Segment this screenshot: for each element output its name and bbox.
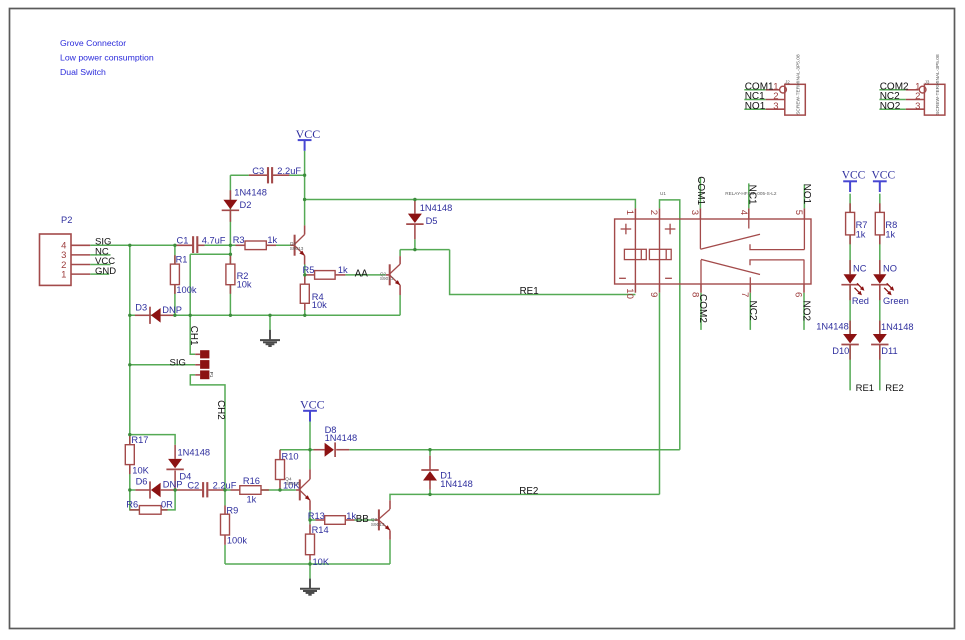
svg-text:Red: Red — [852, 296, 869, 306]
wire Q2 collector up — [399, 250, 401, 257]
P2 pin numbers — [61, 241, 66, 281]
junction at 304.8,315.3 — [303, 314, 306, 317]
diode D2 — [222, 200, 239, 211]
J3 pin3 lead — [906, 108, 925, 110]
svg-text:NC2: NC2 — [747, 301, 758, 321]
diode D3 — [150, 307, 161, 324]
svg-text:R16: R16 — [243, 476, 260, 486]
junction at 270.0,315.3 — [268, 314, 271, 317]
Q1 base lead — [290, 244, 294, 246]
Q1 collector lead — [304, 225, 306, 234]
svg-text:1: 1 — [61, 269, 66, 280]
D11 top lead — [879, 321, 881, 334]
wire P2 pin2 VCC stub — [90, 264, 110, 266]
J2 pin1 lead — [766, 89, 780, 91]
wire J2 NC1 — [744, 99, 765, 101]
wire VCC2 node to Q4 collector — [309, 450, 311, 470]
R4 bottom lead — [304, 303, 306, 310]
wire R2 bottom — [229, 285, 231, 316]
wire R16 to Q4 base — [261, 489, 296, 491]
resistor R17 — [125, 445, 134, 465]
wire P2 pin1 GND stub — [90, 273, 109, 275]
wire D5 bottom — [414, 239, 416, 249]
wire D10 to RE1 end — [849, 345, 851, 391]
svg-text:DNP: DNP — [163, 479, 183, 489]
wire R1 bottom — [174, 285, 176, 316]
resistor R16 — [240, 486, 261, 495]
svg-text:VCC: VCC — [300, 397, 325, 411]
relay U1 body — [615, 219, 811, 284]
wire ground rail lower — [225, 563, 390, 565]
svg-text:1: 1 — [624, 210, 635, 215]
J3 pin1 lead — [906, 89, 919, 91]
relay switch2 NO pin6 line — [803, 260, 805, 284]
svg-text:10k: 10k — [237, 279, 252, 289]
R7 top lead — [849, 203, 851, 212]
jumper P1 pad 3 — [200, 370, 209, 379]
svg-text:S9013: S9013 — [290, 246, 304, 251]
resistor R13 — [325, 516, 346, 525]
R4 top lead — [304, 275, 306, 284]
screw terminal J2 body — [785, 84, 806, 115]
wire D8 to relay pin2 column — [349, 449, 680, 451]
screw terminal J3 body — [924, 84, 945, 115]
wire Q2 collector to RE1 corner — [400, 249, 450, 251]
wire ground rail upper — [130, 314, 400, 316]
svg-text:CH2: CH2 — [215, 400, 226, 420]
wire Q4 emitter to R13 node — [309, 510, 311, 524]
R1 bottom lead — [174, 285, 176, 294]
svg-text:2.2uF: 2.2uF — [277, 166, 301, 176]
P2 pin4 lead — [71, 244, 90, 246]
R2 top lead — [229, 254, 231, 264]
svg-text:R14: R14 — [312, 525, 329, 535]
J3 pin1 circle — [919, 86, 926, 93]
relay pin5 lead — [803, 208, 805, 219]
capacitor C2 — [203, 482, 207, 497]
P2 pin3 lead — [71, 254, 90, 256]
R10 top lead — [279, 450, 281, 460]
LED NC bottom lead — [849, 285, 851, 301]
wire C1 to R3 node — [197, 244, 245, 246]
svg-text:R9: R9 — [226, 506, 238, 516]
svg-text:NO: NO — [883, 263, 897, 273]
R8 top lead — [879, 203, 881, 212]
svg-text:U1: U1 — [660, 191, 666, 196]
D8 left lead — [314, 449, 325, 451]
transistor Q4 — [300, 479, 310, 500]
wire node to CH1 horizontal — [190, 253, 230, 255]
relay coil 1 line — [634, 219, 636, 284]
svg-text:CH1: CH1 — [188, 326, 199, 346]
svg-text:P1: P1 — [208, 372, 214, 378]
relay switch1 NC contact — [748, 219, 750, 229]
LED LED2 green — [871, 274, 894, 295]
wire R4 bottom — [304, 310, 306, 315]
svg-text:D2: D2 — [240, 200, 252, 210]
svg-text:GND: GND — [95, 266, 116, 277]
svg-text:1N4148: 1N4148 — [420, 203, 453, 213]
jumper P1 pad 2 — [200, 360, 209, 369]
svg-text:D11: D11 — [881, 346, 897, 356]
svg-text:NO2: NO2 — [800, 301, 811, 322]
wire J2 COM1 — [744, 89, 765, 91]
junction at 129.8,245.3 — [128, 244, 131, 247]
Q4 type text — [285, 476, 299, 486]
wire R9 bottom — [224, 545, 226, 564]
wire left SIG vertical rail upper — [129, 245, 131, 444]
VCC supply symbol — [843, 181, 857, 192]
wire VCC to R7 — [849, 194, 851, 213]
D5 bottom lead — [414, 225, 416, 240]
relay pin6 lead — [803, 284, 805, 293]
wire Q1 emitter to R5 node — [304, 265, 306, 275]
D5 top lead — [414, 200, 416, 214]
relay coil 2 line — [659, 219, 661, 284]
relay coil1 minus sign — [619, 277, 626, 279]
svg-text:J2: J2 — [785, 80, 790, 85]
junction at 304.6,199.5 — [303, 198, 306, 201]
wire relay pin3 COM1 stub — [699, 178, 701, 208]
R16 left lead — [231, 489, 240, 491]
J3 pin numbers — [915, 81, 920, 111]
D1 bottom lead — [429, 480, 431, 489]
Q3 emitter lead — [389, 530, 391, 539]
svg-text:4.7uF: 4.7uF — [202, 235, 226, 245]
J3 pin2 lead — [906, 99, 925, 101]
D2 top lead — [229, 190, 231, 200]
junction at 304.6,175.2 — [303, 174, 306, 177]
Q3 base lead — [375, 519, 379, 521]
wire SIG to P1 pin2 — [130, 364, 195, 366]
J2 pin numbers — [773, 81, 778, 111]
svg-text:RE1: RE1 — [520, 286, 539, 297]
svg-text:S9013: S9013 — [371, 522, 385, 527]
wire R8 to LED NO — [879, 235, 881, 274]
wire BB R13 to Q3 base — [355, 519, 375, 521]
svg-text:J3: J3 — [925, 80, 930, 85]
wire J3 NO2 — [879, 108, 905, 110]
relay coil2 minus sign — [665, 277, 672, 279]
Q4 emitter lead — [309, 500, 311, 510]
C2 right lead — [208, 489, 224, 491]
wire VCC column to Q1 collector — [304, 151, 306, 226]
resistor R14 — [306, 534, 315, 555]
svg-text:Green: Green — [883, 296, 909, 306]
R3 right lead — [266, 244, 276, 246]
wire RE2 up to relay pin9 — [659, 293, 661, 495]
junction at 174.9,245.3 — [173, 244, 176, 247]
svg-text:RE2: RE2 — [885, 383, 903, 394]
capacitor C3 — [268, 167, 272, 183]
D10 top lead — [849, 321, 851, 334]
svg-text:1k: 1k — [267, 235, 277, 245]
resistor R8 — [875, 212, 884, 235]
svg-text:R10: R10 — [282, 451, 299, 461]
svg-text:3: 3 — [689, 210, 700, 215]
wire R13 left stub — [310, 519, 316, 521]
svg-text:NC: NC — [853, 263, 867, 273]
resistor R7 — [846, 212, 855, 235]
svg-text:P2: P2 — [61, 215, 72, 225]
relay pin3 lead — [699, 208, 701, 219]
J2 pin2 lead — [766, 99, 785, 101]
svg-text:SIG: SIG — [170, 357, 186, 368]
wire Q2 emitter to ground rail — [399, 295, 401, 315]
junction at 129.8,364.8 — [128, 363, 131, 366]
Q2 type text — [380, 271, 394, 281]
wire C3 right to VCC column — [273, 174, 305, 176]
P2 pin1 lead — [71, 273, 90, 275]
LED NO top lead — [879, 260, 881, 274]
transistor Q3 — [379, 509, 390, 530]
svg-text:C2: C2 — [187, 481, 199, 491]
svg-text:6: 6 — [793, 292, 804, 297]
wire P2 pin3 NC stub — [90, 254, 110, 256]
relay pin2 lead — [659, 208, 661, 219]
R7 bottom lead — [849, 235, 851, 244]
ground — [300, 564, 320, 595]
resistor R4 — [300, 284, 309, 303]
R13 left lead — [316, 519, 325, 521]
relay switch1 blade — [700, 234, 760, 249]
relay switch1 pole — [699, 219, 701, 249]
R6 left lead — [130, 509, 140, 511]
Q1 type text — [290, 241, 304, 251]
VCC supply symbol — [873, 181, 887, 192]
LED LED1 red — [841, 274, 864, 295]
R16 right lead — [261, 489, 269, 491]
R1 top lead — [174, 255, 176, 264]
svg-text:100k: 100k — [227, 536, 248, 546]
svg-text:NO2: NO2 — [880, 101, 901, 112]
resistor R1 — [170, 264, 179, 285]
P1 pin1 lead — [195, 353, 200, 355]
wire RE1 to relay pin10 — [450, 250, 636, 295]
R14 bottom lead — [309, 555, 311, 561]
relay pin4 lead — [748, 208, 750, 219]
wire Q3 collector to RE2 — [390, 494, 660, 500]
relay coil 2 box — [649, 249, 671, 259]
C1 right lead — [198, 244, 204, 246]
R9 bottom lead — [224, 535, 226, 545]
diode D1 — [421, 470, 438, 481]
svg-text:100k: 100k — [176, 285, 197, 295]
C1 left lead — [175, 244, 192, 246]
svg-text:10k: 10k — [312, 300, 327, 310]
wire VCC2 to D8 row — [309, 419, 311, 450]
diode D6 — [150, 481, 161, 498]
J2 pin3 lead — [766, 108, 785, 110]
resistor R6 — [139, 506, 161, 515]
wire relay pin5 NO1 stub — [803, 184, 805, 208]
wire R7 to LED NC — [849, 235, 851, 274]
wire D4 top from R17 node — [130, 435, 175, 445]
wire D1 bottom stub — [429, 490, 431, 495]
relay coil1 plus sign — [621, 224, 632, 235]
D2 bottom lead — [229, 210, 231, 221]
wire LED NO to D11 — [879, 285, 881, 334]
wire R3 to Q1 base — [266, 244, 294, 246]
junction at 230.4,245.3 — [229, 244, 232, 247]
wire relay pin7 NC2 stub — [749, 293, 751, 330]
svg-text:1k: 1k — [247, 494, 257, 504]
wire D2 R2 column — [229, 175, 231, 264]
svg-text:Low power consumption: Low power consumption — [60, 53, 154, 63]
wire Q3 emitter down — [389, 540, 391, 564]
svg-text:Grove Connector: Grove Connector — [60, 38, 126, 48]
svg-text:BB: BB — [356, 514, 370, 525]
LED NC top lead — [849, 260, 851, 274]
svg-text:10K: 10K — [313, 557, 330, 567]
wire R14 bottom stub — [309, 560, 311, 564]
R5 right lead — [335, 274, 345, 276]
Q4 collector lead — [309, 469, 311, 479]
R17 bottom lead — [129, 465, 131, 475]
wire R10 top row — [280, 449, 314, 451]
junction at 190.2,315.3 — [189, 314, 192, 317]
resistor R2 — [226, 264, 235, 285]
wire left SIG vertical rail lower — [130, 465, 140, 510]
relay coil 1 box — [624, 249, 646, 259]
junction at 175.1,490.0 — [173, 488, 176, 491]
relay pin1 lead — [634, 208, 636, 219]
svg-text:R6: R6 — [126, 499, 138, 509]
resistor R3 — [245, 241, 266, 250]
svg-text:10: 10 — [624, 288, 635, 299]
svg-text:D5: D5 — [426, 216, 438, 226]
R10 bottom lead — [279, 480, 281, 491]
D4 top lead — [174, 445, 176, 459]
R3 left lead — [236, 244, 246, 246]
wire R5 to Q2 base — [345, 274, 385, 276]
capacitor C1 — [193, 236, 197, 253]
VCC supply symbol — [303, 411, 317, 422]
relay coil2 plus sign — [665, 224, 676, 235]
junction at 310.0,564.0 — [308, 562, 311, 565]
Q2 base lead — [386, 274, 390, 276]
diode D4 — [166, 459, 183, 470]
svg-text:D10: D10 — [832, 346, 849, 356]
transistor Q1 — [295, 235, 305, 256]
svg-text:COM2: COM2 — [697, 294, 708, 323]
svg-text:R1: R1 — [176, 254, 188, 264]
junction at 414.9,249.6 — [413, 248, 416, 251]
Q2 emitter lead — [399, 285, 401, 295]
Q4 base lead — [296, 489, 300, 491]
svg-text:1k: 1k — [856, 229, 866, 239]
svg-text:VCC: VCC — [872, 170, 896, 182]
connector P2 body — [40, 234, 72, 285]
svg-text:C1: C1 — [177, 235, 189, 245]
svg-text:RE1: RE1 — [856, 383, 874, 394]
svg-text:VCC: VCC — [842, 170, 866, 182]
wire relay pin8 COM2 stub — [700, 293, 702, 330]
relay pin10 lead — [634, 284, 636, 293]
diode D5 — [406, 214, 423, 225]
R5 left lead — [305, 274, 315, 276]
R13 right lead — [345, 519, 354, 521]
relay pin7 lead — [749, 284, 751, 293]
diode D11 — [871, 334, 888, 345]
junction at 310.0,449.7 — [308, 448, 311, 451]
relay switch1 NO contact — [750, 244, 804, 249]
wire J3 COM2 — [879, 89, 905, 91]
svg-text:RE2: RE2 — [519, 486, 538, 497]
wire D11 to RE2 end — [879, 345, 881, 391]
wire VCC node to relay pin1 — [305, 200, 636, 209]
wire LED NC to D10 — [849, 285, 851, 334]
relay pin9 lead — [659, 284, 661, 293]
svg-text:NO1: NO1 — [745, 101, 766, 112]
wire CH1 vertical — [190, 254, 195, 354]
svg-text:C3: C3 — [252, 166, 264, 176]
relay switch2 pole — [700, 260, 702, 284]
wire relay pin6 NO2 stub — [803, 293, 805, 330]
svg-text:1k: 1k — [338, 265, 348, 275]
svg-text:10K: 10K — [132, 465, 149, 475]
junction at 414.9,199.5 — [413, 198, 416, 201]
svg-text:1N4148: 1N4148 — [178, 447, 211, 457]
relay switch2 NC contact — [749, 277, 751, 284]
C3 left lead — [249, 174, 267, 176]
C3 right lead — [273, 174, 289, 176]
junction at 230.4,254.3 — [229, 253, 232, 256]
junction at 310.0,520.0 — [308, 518, 311, 521]
Q1 emitter lead — [304, 256, 306, 265]
wire D1 top stub — [429, 450, 431, 456]
wire relay pin4 NC1 stub — [748, 183, 750, 208]
svg-text:1N4148: 1N4148 — [816, 321, 849, 331]
junction at 430.0,449.7 — [428, 448, 431, 451]
wire D4 bottom to R6 — [161, 490, 175, 510]
junction at 129.8,315.3 — [128, 314, 131, 317]
svg-text:7: 7 — [739, 292, 750, 297]
junction at 230.4,315.3 — [229, 314, 232, 317]
junction at 280.0,490.0 — [278, 488, 281, 491]
wire relay pin2 to D8 row — [660, 200, 680, 450]
junction at 129.8,490.0 — [128, 488, 131, 491]
D8 right lead — [336, 449, 349, 451]
diode D10 — [841, 334, 858, 345]
junction at 174.9,315.3 — [173, 314, 176, 317]
R8 bottom lead — [879, 235, 881, 244]
svg-text:1N4148: 1N4148 — [234, 187, 267, 197]
svg-text:R17: R17 — [131, 435, 148, 445]
J2 pin1 circle — [780, 86, 787, 93]
wire J3 NC2 — [879, 99, 905, 101]
junction at 430.0,494.4 — [428, 493, 431, 496]
wire D6 left stub — [130, 489, 136, 491]
svg-text:1N4148: 1N4148 — [881, 322, 914, 332]
wire CH2 from P1 pin3 — [190, 375, 225, 506]
resistor R9 — [221, 514, 230, 535]
D1 top lead — [429, 456, 431, 470]
svg-text:1k: 1k — [885, 229, 895, 239]
svg-text:Dual Switch: Dual Switch — [60, 67, 106, 77]
D3 right lead — [161, 314, 175, 316]
svg-text:1N4148: 1N4148 — [440, 479, 473, 489]
svg-text:D6: D6 — [136, 477, 148, 487]
D10 bottom lead — [849, 345, 851, 360]
relay pin8 lead — [700, 284, 702, 293]
resistor R5 — [315, 271, 336, 280]
D4 bottom lead — [174, 471, 176, 491]
relay switch2 NO contact — [750, 260, 804, 265]
R2 bottom lead — [229, 285, 231, 294]
svg-text:4: 4 — [738, 210, 749, 216]
svg-text:3: 3 — [915, 101, 920, 112]
